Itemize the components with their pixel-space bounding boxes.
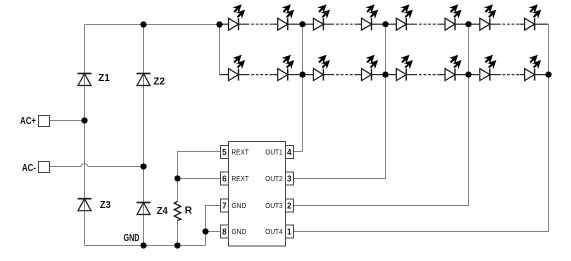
wire row1 seg3 LED out [406, 23, 414, 25]
svg-text:OUT2: OUT2 [265, 176, 282, 183]
node REXT / R junction [174, 175, 180, 181]
svg-text:5: 5 [222, 148, 227, 157]
node top rail / Z2 junction [140, 21, 146, 27]
zener diode Z3 [78, 199, 92, 211]
svg-text:GND: GND [124, 233, 140, 244]
wire OUT4 net to string end [294, 25, 549, 232]
node Z4 / GND rail junction [140, 242, 146, 248]
wire row2 seg4 tap to LED [469, 74, 480, 76]
svg-text:AC-: AC- [22, 163, 36, 174]
wire pin5 REXT net [178, 152, 221, 179]
svg-text:GND: GND [232, 229, 247, 236]
svg-text:6: 6 [222, 174, 227, 183]
wire top rail AC+ to LED feed [85, 24, 220, 26]
svg-text:AC+: AC+ [20, 116, 36, 127]
pin 8 GND [221, 225, 247, 238]
wire row1 seg1 dashed continuation [247, 23, 273, 25]
wire row2 seg4 LED out [490, 74, 498, 76]
wire row1 seg4 LED out [490, 23, 498, 25]
LED row2-5 [396, 55, 413, 81]
wire row1 seg1 LED in [273, 23, 278, 25]
svg-text:Z2: Z2 [153, 77, 165, 88]
svg-text:Z1: Z1 [98, 73, 110, 84]
wire row1 seg3 to tap [455, 23, 469, 25]
LED row2-8 [525, 55, 542, 81]
wire row2 seg3 to tap [455, 74, 469, 76]
svg-text:REXT: REXT [232, 176, 250, 183]
wire row2 seg2 LED out [323, 74, 331, 76]
node row2 end / OUT4 junction [545, 72, 551, 78]
pin 4 OUT1 [265, 146, 293, 159]
node row2 tap1 [299, 72, 305, 78]
wire row1 seg4 tap to LED [469, 23, 480, 25]
wire row2 seg2 LED in [357, 74, 362, 76]
node pin8 GND junction [202, 228, 208, 234]
wire AC+ lead [50, 120, 85, 122]
wire row2 seg4 LED in [520, 74, 525, 76]
wire row1 seg4 to tap [535, 23, 549, 25]
wire OUT2 net to tap2 [294, 25, 386, 179]
LED row2-6 [445, 55, 462, 81]
pin 1 OUT4 [265, 225, 293, 238]
LED row1-5 [396, 4, 413, 30]
wire row2 seg3 LED in [440, 74, 445, 76]
svg-text:4: 4 [287, 148, 292, 157]
AC- terminal [39, 162, 50, 173]
wire row2 seg3 LED out [406, 74, 414, 76]
wire row2 seg1 to tap [288, 74, 303, 76]
wire OUT3 net to tap3 [294, 25, 469, 206]
LED row1-3 [313, 4, 330, 30]
wire row1 seg4 dashed continuation [498, 23, 520, 25]
pin 6 REXT [221, 172, 250, 185]
svg-text:OUT4: OUT4 [265, 229, 282, 236]
wire pin6 REXT stub [178, 178, 221, 180]
LED row2-3 [313, 55, 330, 81]
node row1 tap1 [299, 21, 305, 27]
svg-text:7: 7 [222, 201, 227, 210]
node row1 tap2 [382, 21, 388, 27]
zener diode Z4 [137, 203, 151, 215]
node AC- junction [140, 163, 146, 169]
wire row1 seg1 to tap [288, 23, 303, 25]
wire row2 seg3 dashed continuation [414, 74, 440, 76]
LED row2-1 [229, 55, 246, 81]
wire row1 seg3 tap to LED [386, 23, 397, 25]
node row2 tap3 [465, 72, 471, 78]
pin 5 REXT [221, 146, 250, 159]
AC+ terminal [39, 116, 50, 127]
svg-text:Z4: Z4 [157, 206, 168, 217]
LED row2-2 [278, 55, 295, 81]
wire row2 seg4 to tap [535, 74, 549, 76]
svg-text:GND: GND [232, 203, 247, 210]
LED row1-8 [525, 4, 542, 30]
svg-text:8: 8 [222, 227, 227, 236]
LED row1-1 [229, 4, 246, 30]
wire row2 seg1 LED in [273, 74, 278, 76]
svg-text:2: 2 [287, 201, 292, 210]
op-amp U1 LED driver IC body [229, 142, 286, 247]
pin 3 OUT2 [265, 172, 293, 185]
node row1 tap3 [465, 21, 471, 27]
wire LED string feed vertical [219, 25, 221, 75]
svg-text:1: 1 [287, 227, 292, 236]
wire row1 seg3 LED in [440, 23, 445, 25]
svg-text:Z3: Z3 [100, 200, 111, 211]
zener diode Z1 [78, 74, 92, 86]
wire R top lead [177, 179, 179, 202]
wire pin8 GND stub [206, 231, 221, 233]
svg-text:OUT3: OUT3 [265, 203, 282, 210]
node row2 tap2 [382, 72, 388, 78]
wire R bottom lead [177, 220, 179, 245]
wire row1 seg2 LED in [357, 23, 362, 25]
wire row1 seg2 LED out [323, 23, 331, 25]
wire row1 seg2 dashed continuation [331, 23, 356, 25]
wire GND bottom rail [85, 245, 206, 247]
LED row2-4 [362, 55, 379, 81]
wire row1 seg1 LED out [239, 23, 247, 25]
svg-text:REXT: REXT [232, 150, 250, 157]
wire row2 seg1 dashed continuation [247, 74, 273, 76]
LED row1-6 [445, 4, 462, 30]
wire row2 seg1 LED out [239, 74, 247, 76]
LED row1-4 [362, 4, 379, 30]
wire row2 seg1 tap to LED [220, 74, 229, 76]
node top rail / LED feed junction [216, 21, 222, 27]
pin 2 OUT3 [265, 199, 293, 212]
wire row2 seg2 tap to LED [303, 74, 314, 76]
svg-text:OUT1: OUT1 [265, 150, 282, 157]
wire row2 seg3 tap to LED [386, 74, 397, 76]
wire row2 seg4 dashed continuation [498, 74, 520, 76]
zener diode Z2 [137, 74, 151, 86]
wire row1 seg1 tap to LED [220, 23, 229, 25]
wire row1 seg4 LED in [520, 23, 525, 25]
pin 7 GND [221, 199, 247, 212]
node R / GND rail junction [174, 242, 180, 248]
wire row1 seg3 dashed continuation [414, 23, 440, 25]
resistor R [174, 201, 180, 220]
wire AC- lead with hop over Z1 branch [50, 164, 144, 167]
wire row2 seg2 dashed continuation [331, 74, 356, 76]
wire OUT1 net to tap1 [294, 25, 303, 152]
wire row1 seg2 to tap [372, 23, 386, 25]
svg-text:R: R [185, 206, 193, 217]
wire Z2/Z4 branch vertical [143, 25, 145, 246]
LED row1-2 [278, 4, 295, 30]
node AC+ junction [81, 117, 87, 123]
LED row2-7 [480, 55, 497, 81]
wire row2 seg2 to tap [372, 74, 386, 76]
wire row1 seg2 tap to LED [303, 23, 314, 25]
wire pin7 GND net [206, 206, 221, 246]
wire left branch vertical (Z1/Z3) [84, 25, 86, 246]
svg-text:3: 3 [287, 174, 292, 183]
LED row1-7 [480, 4, 497, 30]
